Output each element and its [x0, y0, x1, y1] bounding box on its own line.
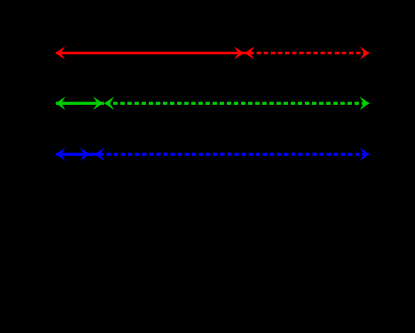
wire: blue solid double arrow segment — [55, 148, 94, 161]
wire: red solid double arrow segment — [55, 47, 244, 60]
wire: blue dashed double arrow segment — [94, 148, 370, 161]
wire: red dashed double arrow segment — [244, 47, 370, 60]
wire: green dashed double arrow segment — [104, 97, 370, 110]
wire: green solid double arrow segment — [55, 97, 104, 110]
